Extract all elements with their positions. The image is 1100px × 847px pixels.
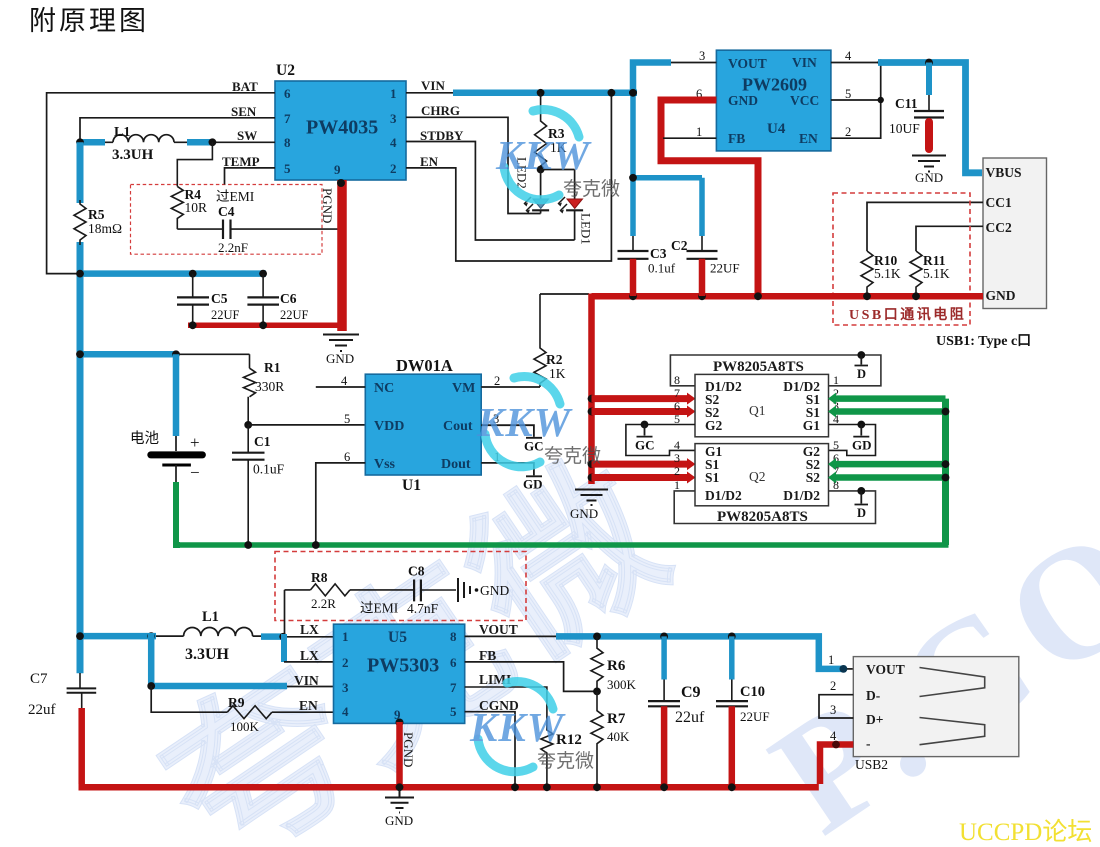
svg-text:6: 6: [674, 399, 680, 413]
svg-text:LX: LX: [300, 648, 319, 663]
svg-text:1: 1: [390, 86, 397, 101]
watermark KKW 3: [469, 682, 594, 772]
svg-text:22UF: 22UF: [740, 709, 770, 724]
watermark KKW 1: [495, 110, 620, 200]
svg-text:6: 6: [284, 86, 291, 101]
resistor R5: [74, 200, 122, 245]
svg-text:VBUS: VBUS: [986, 165, 1022, 180]
svg-text:C11: C11: [895, 96, 918, 111]
U5 pin name labels: [294, 622, 519, 713]
svg-text:4: 4: [674, 438, 680, 452]
svg-text:8: 8: [284, 135, 291, 150]
svg-text:C5: C5: [211, 291, 228, 306]
wire B- red rail top: [592, 293, 984, 300]
capacitor C8: [360, 564, 456, 617]
wire CC2: [916, 226, 983, 251]
resistor R6: [591, 636, 637, 692]
svg-text:1: 1: [696, 125, 702, 139]
wire U4 VOUT to VIN rail: [668, 62, 716, 64]
wire red S2 Q1 branches: [592, 395, 688, 402]
svg-text:过EMI: 过EMI: [216, 189, 255, 204]
connector USB1 VBUS box: [983, 158, 1047, 309]
svg-text:GND: GND: [728, 93, 758, 108]
wire USB2 pin4 red: [820, 745, 853, 785]
wire C7 red down + bottom red rail: [79, 708, 819, 787]
LED1: [558, 170, 594, 245]
svg-text:3: 3: [674, 451, 680, 465]
wire EN + resistor R9: [151, 686, 333, 734]
wire battery top rail: [80, 351, 176, 358]
wire SEN: [80, 118, 275, 140]
node D flag (Q1): [855, 351, 869, 381]
svg-text:6: 6: [450, 655, 457, 670]
svg-text:EN: EN: [799, 131, 818, 146]
svg-text:VOUT: VOUT: [866, 662, 905, 677]
svg-text:7: 7: [674, 386, 680, 400]
svg-text:PW4035: PW4035: [306, 117, 378, 139]
capacitor C2: [629, 174, 740, 296]
svg-text:22uf: 22uf: [28, 702, 56, 718]
svg-text:C9: C9: [681, 684, 701, 701]
IC U4 PW2609: [696, 49, 852, 151]
svg-text:G1: G1: [803, 418, 821, 433]
capacitor C9: [648, 636, 705, 787]
transistor Q1 (PW8205A8TS top): [674, 373, 839, 437]
wire U4 GND red to B- rail: [661, 100, 758, 294]
svg-text:U2: U2: [276, 62, 295, 79]
svg-text:SW: SW: [237, 128, 257, 143]
svg-text:VOUT: VOUT: [479, 622, 518, 637]
svg-text:VOUT: VOUT: [728, 56, 767, 71]
wire Dout + GD flag: [481, 463, 542, 492]
svg-text:C2: C2: [671, 238, 688, 253]
svg-text:5.1K: 5.1K: [923, 266, 950, 281]
svg-text:+: +: [190, 433, 200, 452]
wire VDD: [248, 424, 365, 426]
svg-text:D: D: [857, 367, 866, 381]
wire CHRG to LED2: [406, 117, 541, 213]
ground (C8 sideways): [458, 578, 470, 602]
svg-text:C3: C3: [650, 246, 667, 261]
svg-text:2: 2: [674, 464, 680, 478]
svg-text:5: 5: [344, 412, 350, 426]
LED2: [515, 157, 550, 214]
svg-text:C1: C1: [254, 434, 271, 449]
wire CC1: [867, 202, 983, 251]
watermark KKW 2: [476, 377, 601, 467]
svg-text:C8: C8: [408, 564, 425, 579]
svg-text:5: 5: [284, 161, 291, 176]
svg-text:2: 2: [342, 655, 349, 670]
svg-text:S2: S2: [806, 470, 821, 485]
svg-text:22UF: 22UF: [280, 308, 309, 322]
inductor L1 (bottom): [155, 609, 262, 663]
wire NC stub: [316, 386, 366, 388]
svg-text:330R: 330R: [255, 379, 284, 394]
svg-text:100K: 100K: [230, 719, 260, 734]
svg-text:Vss: Vss: [374, 457, 396, 472]
svg-text:U4: U4: [767, 121, 786, 137]
wire CGND: [465, 712, 515, 788]
svg-text:USB口通讯电阻: USB口通讯电阻: [849, 306, 966, 323]
svg-text:PGND: PGND: [320, 188, 335, 223]
wire LX rail blue: [80, 633, 156, 640]
svg-text:2: 2: [390, 161, 397, 176]
svg-text:1: 1: [674, 478, 680, 492]
svg-text:10R: 10R: [185, 200, 208, 215]
svg-text:VIN: VIN: [792, 55, 817, 70]
svg-text:附原理图: 附原理图: [29, 6, 149, 36]
connector USB2: [853, 657, 1019, 772]
svg-text:GC: GC: [635, 438, 655, 453]
capacitor C6: [247, 274, 308, 323]
svg-text:6: 6: [344, 450, 350, 464]
svg-text:5.1K: 5.1K: [874, 266, 901, 281]
svg-text:8: 8: [674, 373, 680, 387]
svg-text:EN: EN: [420, 154, 439, 169]
battery 电池: [130, 354, 206, 482]
svg-text:USB1: Type c口: USB1: Type c口: [936, 334, 1031, 349]
svg-text:LED1: LED1: [579, 213, 594, 245]
resistor R2: [534, 294, 589, 387]
svg-text:CC1: CC1: [986, 195, 1012, 210]
svg-text:4.7nF: 4.7nF: [407, 601, 439, 616]
svg-text:CHRG: CHRG: [421, 103, 460, 118]
svg-text:7: 7: [450, 680, 457, 695]
wire VIN blue to VBUS: [878, 63, 982, 173]
svg-text:4: 4: [845, 49, 852, 63]
svg-text:VIN: VIN: [294, 673, 319, 688]
wire B- vertical: [588, 294, 595, 485]
giant diagonal watermark (background): [133, 428, 1100, 847]
wire Q1 D1/D2 loop: [670, 355, 881, 386]
node SW junction: [209, 138, 217, 146]
svg-text:VCC: VCC: [790, 93, 819, 108]
wire STDBY to LED1: [406, 142, 575, 241]
wire red S1 Q2 branches: [592, 461, 688, 468]
capacitor C1: [232, 425, 285, 545]
svg-text:GND: GND: [570, 506, 598, 521]
svg-text:9: 9: [334, 162, 341, 177]
svg-text:3: 3: [699, 49, 705, 63]
svg-text:PW8205A8TS: PW8205A8TS: [713, 359, 804, 375]
svg-text:4: 4: [341, 374, 348, 388]
svg-text:CC2: CC2: [986, 220, 1012, 235]
svg-text:EN: EN: [299, 698, 318, 713]
node D flag (Q2): [855, 487, 869, 520]
ground (U2 PGND): [323, 335, 359, 352]
svg-text:D+: D+: [866, 712, 883, 727]
svg-text:SEN: SEN: [231, 104, 257, 119]
node GC flag: [635, 421, 655, 453]
svg-text:FB: FB: [479, 648, 496, 663]
svg-text:C6: C6: [280, 291, 297, 306]
svg-text:PW2609: PW2609: [742, 75, 807, 95]
capacitor C4: [177, 204, 345, 255]
svg-text:D: D: [857, 506, 866, 520]
svg-text:C4: C4: [218, 204, 235, 219]
svg-text:U5: U5: [388, 629, 407, 646]
capacitor C11: [889, 63, 944, 153]
svg-text:Dout: Dout: [441, 457, 471, 472]
wire TEMP stub: [225, 168, 276, 185]
svg-text:GND: GND: [326, 351, 354, 366]
USB2 pin numbers: [828, 653, 837, 743]
svg-text:电池: 电池: [130, 430, 159, 447]
inductor L1 (top): [80, 125, 212, 163]
svg-text:8: 8: [450, 629, 457, 644]
transistor Q2 (PW8205A8TS bottom): [674, 438, 839, 506]
wire PGND red (U5 pin9): [396, 719, 417, 791]
svg-text:R9: R9: [228, 695, 245, 710]
svg-text:VDD: VDD: [374, 419, 404, 434]
wire blue rail left (x=80): [77, 142, 84, 203]
wire LED tops: [541, 169, 575, 171]
svg-text:GD: GD: [852, 438, 872, 453]
svg-text:PW5303: PW5303: [367, 655, 439, 677]
wire D-/D+ loop: [819, 695, 853, 718]
svg-text:VIN: VIN: [421, 78, 445, 93]
svg-text:2.2nF: 2.2nF: [218, 240, 248, 255]
wire Vss to green: [316, 463, 366, 545]
dashed EMI box (R4/C4): [131, 185, 323, 255]
wire U4 right: VIN/VCC/EN tie: [831, 63, 881, 139]
svg-text:0.1uF: 0.1uF: [253, 462, 285, 477]
svg-text:−: −: [190, 463, 200, 482]
svg-text:TEMP: TEMP: [222, 154, 260, 169]
svg-text:22UF: 22UF: [710, 261, 740, 276]
svg-text:LX: LX: [300, 622, 319, 637]
svg-text:VM: VM: [452, 381, 475, 396]
wire red rail C5/C6 bottom: [188, 323, 343, 329]
resistor R10: [861, 251, 901, 296]
wire LIMI + resistor R12: [465, 687, 582, 787]
IC U1 DW01A: [341, 356, 500, 494]
wire PGND red (U2 pin9): [320, 179, 345, 331]
svg-text:C10: C10: [740, 684, 765, 700]
wire green S2 Q2 to vertical: [836, 461, 946, 468]
capacitor C7: [28, 671, 96, 718]
svg-text:4: 4: [390, 135, 397, 150]
wire battery minus green: [176, 482, 180, 545]
wire VM to R2: [481, 386, 540, 388]
resistor R3: [535, 93, 567, 170]
svg-text:1: 1: [342, 629, 349, 644]
svg-text:Q1: Q1: [749, 403, 766, 418]
wire LX2 blue: [281, 634, 287, 662]
wire GC loop (Q1.G2-Q2.G1): [626, 425, 695, 456]
wire VIN row blue: [148, 633, 155, 686]
wire FB path: [465, 662, 597, 692]
svg-text:PW8205A8TS: PW8205A8TS: [717, 509, 808, 525]
svg-text:7: 7: [284, 111, 291, 126]
svg-text:GD: GD: [523, 477, 543, 492]
svg-text:R1: R1: [264, 360, 281, 375]
wire Q2 D1/D2 loop: [674, 491, 875, 524]
svg-text:Q2: Q2: [749, 469, 766, 484]
node VIN/U4 junction dot: [629, 89, 637, 97]
svg-text:3: 3: [390, 111, 397, 126]
resistor R8: [285, 570, 414, 634]
wire Cout + GC flag: [481, 425, 543, 453]
capacitor C5: [177, 274, 240, 323]
dashed EMI box (R8/C8): [275, 552, 526, 621]
svg-text:3.3UH: 3.3UH: [185, 646, 230, 663]
U2 pin name labels: [222, 78, 464, 169]
wire BAT: [47, 93, 275, 274]
svg-text:-: -: [866, 736, 871, 751]
svg-text:L1: L1: [114, 125, 130, 140]
svg-text:1: 1: [833, 373, 839, 387]
svg-text:2: 2: [494, 374, 500, 388]
svg-text:2: 2: [830, 679, 836, 693]
wire SW: [212, 141, 275, 143]
svg-text:PGND: PGND: [401, 732, 416, 767]
svg-text:UCCPD论坛: UCCPD论坛: [959, 818, 1092, 846]
svg-text:3: 3: [342, 680, 349, 695]
IC U5 PW5303: [334, 624, 465, 723]
resistor R4: [171, 142, 212, 229]
wire VIN rail: [406, 92, 455, 94]
svg-text:1K: 1K: [549, 366, 566, 381]
svg-text:过EMI: 过EMI: [360, 601, 399, 616]
svg-text:R5: R5: [88, 207, 105, 222]
svg-text:NC: NC: [374, 381, 394, 396]
wire green S1 Q1 to vertical: [836, 395, 946, 402]
svg-text:R2: R2: [546, 352, 563, 367]
svg-text:5: 5: [845, 87, 851, 101]
svg-text:C7: C7: [30, 671, 48, 687]
wire U4 FB stub: [663, 137, 716, 139]
svg-text:BAT: BAT: [232, 79, 258, 94]
svg-text:40K: 40K: [607, 729, 630, 744]
dashed box USB resistors: [833, 193, 970, 325]
svg-text:0.1uf: 0.1uf: [648, 261, 676, 276]
svg-text:L1: L1: [202, 609, 219, 625]
wire green bottom rail: [176, 542, 949, 548]
ground (C11): [912, 156, 946, 172]
resistor R11: [910, 251, 950, 296]
svg-text:DW01A: DW01A: [396, 356, 453, 375]
svg-text:3: 3: [830, 703, 836, 717]
wire green vertical: [942, 399, 949, 545]
capacitor C3: [618, 93, 676, 296]
svg-text:D1/D2: D1/D2: [783, 488, 820, 503]
svg-text:18mΩ: 18mΩ: [88, 221, 122, 236]
svg-text:5: 5: [450, 704, 457, 719]
wire GD loop (Q1.G1-Q2.G2): [829, 425, 876, 456]
ground (B-): [575, 490, 608, 506]
svg-text:D-: D-: [866, 688, 880, 703]
svg-text:2: 2: [845, 125, 851, 139]
svg-text:300K: 300K: [607, 677, 637, 692]
svg-text:USB2: USB2: [855, 757, 888, 772]
svg-text:10UF: 10UF: [889, 121, 920, 136]
svg-text:R6: R6: [607, 658, 626, 674]
svg-text:D1/D2: D1/D2: [705, 488, 742, 503]
svg-text:S1: S1: [705, 470, 720, 485]
wire VOUT rail blue: [465, 635, 557, 637]
svg-text:FB: FB: [728, 131, 745, 146]
svg-text:Cout: Cout: [443, 419, 473, 434]
ground (U5 PGND): [385, 790, 414, 813]
svg-text:GND: GND: [915, 170, 943, 185]
svg-text:2.2R: 2.2R: [311, 596, 336, 611]
node GD flag: [852, 421, 872, 453]
svg-text:R8: R8: [311, 570, 328, 585]
svg-text:22UF: 22UF: [211, 308, 240, 322]
svg-text:5: 5: [833, 438, 839, 452]
svg-text:GND: GND: [385, 813, 413, 828]
svg-text:R7: R7: [607, 711, 626, 727]
wire EN to VIN: [406, 96, 611, 261]
resistor R7: [591, 691, 630, 787]
svg-text:G2: G2: [705, 418, 723, 433]
svg-text:U1: U1: [402, 477, 421, 494]
capacitor C10: [716, 636, 770, 787]
resistor R1: [244, 354, 285, 425]
svg-text:4: 4: [342, 704, 349, 719]
svg-text:GND: GND: [480, 583, 509, 598]
svg-text:1: 1: [828, 653, 834, 667]
IC U2 PW4035: [275, 62, 406, 180]
wire blue rail horizontal y=273.6: [80, 270, 266, 277]
svg-text:GND: GND: [986, 288, 1016, 303]
svg-text:3.3UH: 3.3UH: [112, 147, 154, 163]
svg-text:22uf: 22uf: [675, 709, 705, 726]
